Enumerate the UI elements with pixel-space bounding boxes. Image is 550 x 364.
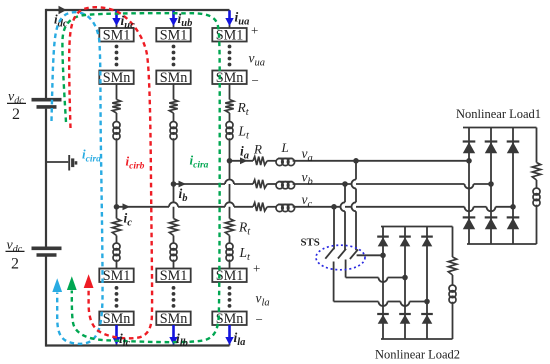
svg-text:−: − — [256, 312, 263, 327]
svg-text:SM1: SM1 — [103, 268, 131, 284]
svg-text:R: R — [253, 142, 262, 157]
svg-text:Nonlinear Load1: Nonlinear Load1 — [456, 107, 541, 121]
svg-text:+: + — [251, 23, 258, 38]
svg-text:+: + — [253, 261, 260, 276]
svg-text:L: L — [281, 140, 289, 155]
svg-text:Nonlinear Load2: Nonlinear Load2 — [375, 348, 460, 362]
svg-text:SMn: SMn — [160, 311, 188, 327]
svg-text:2: 2 — [11, 256, 19, 273]
svg-text:SM1: SM1 — [160, 268, 188, 284]
svg-text:STS: STS — [301, 237, 320, 249]
svg-text:SMn: SMn — [103, 70, 131, 86]
svg-text:SMn: SMn — [160, 70, 188, 86]
svg-text:−: − — [252, 73, 259, 88]
svg-text:SMn: SMn — [103, 311, 131, 327]
svg-text:2: 2 — [12, 106, 20, 123]
svg-text:SMn: SMn — [216, 311, 244, 327]
svg-text:SM1: SM1 — [160, 28, 188, 44]
